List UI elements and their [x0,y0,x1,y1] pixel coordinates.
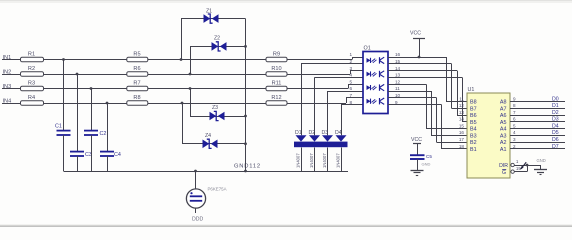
pin A4 U1 [500,127,507,133]
pin 13 U1 [459,110,465,115]
svg-text:R2: R2 [28,66,35,72]
node D4 [552,123,559,129]
node IN2 [3,69,12,75]
node IN1 [3,55,12,61]
capacitor C3 [70,152,92,158]
wire U1 pin 3 to D6 [510,142,565,144]
pin 13 O1 [395,73,401,78]
svg-text:B8: B8 [470,100,477,106]
tvs diode Z4 [203,133,218,148]
pin 7 O1 [349,93,352,98]
wire R11 to opto pin 5 [287,84,363,88]
opto channel 2 [367,71,385,77]
capacitor C1 [55,124,71,136]
svg-text:B2: B2 [470,140,477,146]
diode D4 1N4007 [335,130,347,168]
pin DIR U1 [499,163,508,169]
pin B2 U1 [470,140,477,146]
svg-text:D4: D4 [552,123,559,129]
pin 12 O1 [395,79,401,84]
wire ground rail [64,171,349,173]
resistor R4 [21,95,44,105]
pin B5 U1 [470,120,477,126]
wire opto pin 2 to D1 [301,64,363,136]
pin 11 U1 [459,96,464,101]
svg-text:VCC: VCC [410,31,421,37]
wire C1 to ground rail [63,135,65,171]
svg-text:R5: R5 [133,51,140,57]
pin 4 O1 [349,73,352,78]
pin 1 O1 [349,52,352,57]
svg-text:Z3: Z3 [212,105,218,111]
svg-text:GND: GND [537,158,546,163]
wire D3 to rail [327,148,329,172]
svg-text:C3: C3 [85,152,92,158]
wire U1 pin 7 to D2 [510,115,565,117]
resistor R2 [21,66,44,76]
power VCC C5 [411,137,422,155]
node D1 [552,103,559,109]
svg-text:6: 6 [513,117,516,122]
svg-text:4: 4 [349,73,352,78]
svg-text:D4: D4 [335,130,342,136]
pin B4 U1 [470,127,477,133]
svg-text:Z1: Z1 [206,9,212,15]
wire R3 to R7 [44,88,127,90]
tvs diode Z1 [204,9,219,24]
svg-text:16: 16 [395,52,401,57]
svg-text:18: 18 [459,144,465,149]
pin 16 U1 [459,130,465,135]
no-erc marker [520,162,526,170]
svg-text:15: 15 [459,123,465,128]
svg-text:A1: A1 [500,147,507,153]
pin B8 U1 [470,100,477,106]
wire R4 to R8 [44,103,127,105]
wire U1 pin 2 to D7 [510,148,565,150]
resistor R10 [266,66,287,76]
svg-text:G: G [502,170,506,176]
pin A3 U1 [500,133,507,139]
pin 8 O1 [349,100,352,105]
node IN3 [3,84,12,90]
svg-text:B3: B3 [470,133,477,139]
svg-text:8: 8 [349,100,352,105]
svg-text:D3: D3 [552,117,559,123]
svg-text:D1: D1 [295,130,302,136]
resistor R6 [127,66,148,76]
wire U1 pin 5 to D4 [510,128,565,130]
wire IN4 to R4 [2,103,21,105]
wire C2 to ground rail [91,135,93,171]
wire C3 to ground rail [77,156,79,171]
svg-text:A6: A6 [500,113,507,119]
node D3 [552,117,559,123]
capacitor C4 [100,152,121,158]
svg-text:1N4007: 1N4007 [309,153,314,168]
wire Z3 bridge [189,87,247,117]
svg-text:D7: D7 [552,144,559,150]
svg-text:D5: D5 [552,130,559,136]
pin 5 O1 [349,79,352,84]
svg-text:16: 16 [459,130,465,135]
svg-text:R1: R1 [28,51,35,57]
svg-text:R4: R4 [28,95,35,101]
pin 9 O1 [395,100,398,105]
svg-text:A5: A5 [500,120,507,126]
pin A8 U1 [500,100,507,106]
wire R12 to opto pin 7 [287,98,363,104]
wire R10 to opto pin 3 [287,71,363,75]
node D7 [552,144,559,150]
wire TVS common to rail [244,19,247,173]
wire opto pin 8 to D4 [341,105,363,136]
pin 16 O1 [395,52,401,57]
svg-text:R10: R10 [271,66,281,72]
pin 5 U1 [513,123,516,128]
svg-text:D2: D2 [552,110,559,116]
svg-text:B1: B1 [470,147,477,153]
wire tap to C3 [76,73,79,152]
pin 15 O1 [395,59,401,64]
diode D1 1N4007 [295,130,307,168]
svg-text:D6: D6 [552,137,559,143]
svg-text:2: 2 [349,59,352,64]
svg-text:R7: R7 [133,80,140,86]
svg-text:19: 19 [516,166,521,171]
pin A1 U1 [500,147,507,153]
svg-text:A7: A7 [500,106,507,112]
svg-text:P6KE75A: P6KE75A [208,187,227,192]
svg-text:C5: C5 [426,154,432,159]
wire tap to C2 [90,87,93,131]
node GND112 rail label [234,164,261,170]
wire U1 pin 8 to D1 [510,108,565,110]
pin 2 O1 [349,59,352,64]
resistor R5 [127,51,148,62]
pin 3 U1 [513,137,516,142]
svg-text:8: 8 [513,103,516,108]
capacitor C2 [84,131,106,137]
svg-text:R3: R3 [28,80,35,86]
svg-text:R12: R12 [271,95,281,101]
wire R9 to opto pin 1 [287,57,363,60]
svg-text:A3: A3 [500,133,507,139]
wire opto pin 12 to U1 pin 15 [388,84,467,128]
resistor R12 [266,95,287,105]
svg-text:Z4: Z4 [205,133,211,139]
battery BT1 [186,187,226,214]
svg-text:5: 5 [513,123,516,128]
wire opto pin 4 to D2 [315,77,364,135]
svg-text:Z2: Z2 [214,36,220,42]
node D2 [552,110,559,116]
ground below C5 [411,171,424,176]
wire opto pin 10 to U1 pin 17 [388,98,467,143]
pin 18 U1 [459,144,465,149]
svg-text:14: 14 [459,117,465,122]
wire IN2 to R2 [2,74,21,76]
svg-text:3: 3 [513,137,516,142]
wire opto pin 15 to U1 pin 12 [388,64,467,109]
svg-text:DIR: DIR [499,163,508,169]
svg-text:U1: U1 [468,87,475,93]
pin 2 U1 [513,144,516,149]
pin 14 U1 [459,117,465,122]
svg-text:D2: D2 [309,130,316,136]
pin 7 U1 [513,110,516,115]
node D5 [552,130,559,136]
wire IN3 to R3 [2,88,21,90]
wire opto pin 6 to D3 [328,91,364,135]
pin A5 U1 [500,120,507,126]
svg-text:B5: B5 [470,120,477,126]
wire U1 pin 4 to D5 [510,135,565,137]
wire R5 to R9 [148,59,266,61]
pin 11 O1 [395,86,400,91]
resistor R7 [127,80,148,90]
ground GND right [534,158,547,175]
resistor R8 [127,95,148,105]
opto channel 3 [367,84,385,90]
pin B3 U1 [470,133,477,139]
svg-text:1N4007: 1N4007 [336,153,341,168]
wire R8 to R12 [148,103,266,105]
optocoupler O1 box [363,46,388,114]
wire tap to C1 [62,58,65,131]
wire U1 pin 6 to D3 [510,121,565,123]
svg-text:9: 9 [513,96,516,101]
node D0 [552,96,559,102]
pin 19 G wire [511,164,529,174]
ic U1 box [467,87,510,178]
resistor R9 [266,51,287,62]
wire opto pin 9 to U1 pin 18 [388,105,467,149]
wire D1 to rail [301,148,303,172]
wire U1 pin 9 to D0 [510,101,565,103]
svg-text:GND112: GND112 [234,164,261,170]
pin 15 U1 [459,123,465,128]
pin B1 U1 [470,147,477,153]
pin A6 U1 [500,113,507,119]
pin 14 O1 [395,66,401,71]
pin B7 U1 [470,106,477,112]
wire R1 to R5 [44,59,127,61]
pin 1 DIR wire [511,159,541,167]
wire opto pin 13 to U1 pin 14 [388,77,467,121]
svg-text:12: 12 [395,79,401,84]
svg-text:DDD: DDD [192,217,203,223]
svg-text:13: 13 [395,73,401,78]
pin A2 U1 [500,140,507,146]
opto channel 4 [367,98,385,104]
svg-text:R6: R6 [133,66,140,72]
wire R2 to R6 [44,74,127,76]
wire tap to C4 [106,102,109,152]
node D6 [552,137,559,143]
pin 4 U1 [513,130,516,135]
tvs diode Z2 [212,36,227,52]
pin 6 O1 [349,86,352,91]
svg-text:C1: C1 [55,124,62,130]
svg-text:C4: C4 [114,152,121,158]
pin 10 O1 [395,93,401,98]
svg-text:R9: R9 [273,51,280,57]
pin 17 U1 [459,137,465,142]
pin 3 O1 [349,66,352,71]
svg-text:D3: D3 [322,130,329,136]
wire Z4 bridge [181,102,247,146]
svg-text:A4: A4 [500,127,507,133]
svg-text:1N4007: 1N4007 [296,153,301,168]
pin 8 U1 [513,103,516,108]
svg-text:A8: A8 [500,100,507,106]
svg-text:GND: GND [422,162,431,167]
svg-text:D0: D0 [552,96,559,102]
svg-text:B4: B4 [470,127,477,133]
wire IN1 to R1 [2,59,21,61]
wire R6 to R10 [148,74,266,76]
svg-text:11: 11 [395,86,400,91]
svg-text:3: 3 [349,66,352,71]
svg-text:11: 11 [459,96,464,101]
wire C4 to ground rail [107,156,109,171]
node IN4 [3,98,12,104]
wire Z2 bridge [189,45,247,75]
wire opto pin 16 to U1 pin 11 [388,57,467,102]
svg-text:R11: R11 [272,80,282,86]
wire D4 to rail [341,148,343,172]
node DDD [192,217,203,223]
resistor R11 [266,80,287,90]
svg-text:R8: R8 [133,95,140,101]
opto channel 1 [367,57,385,63]
svg-text:7: 7 [513,110,516,115]
wire opto pin 11 to U1 pin 16 [388,91,467,136]
svg-text:5: 5 [349,79,352,84]
svg-text:D1: D1 [552,103,559,109]
pin 9 U1 [513,96,516,101]
diode D3 1N4007 [322,130,334,168]
diode cathode bar [294,142,348,148]
wire opto pin 14 to U1 pin 13 [388,71,467,116]
svg-text:6: 6 [349,86,352,91]
capacitor C5 [410,154,432,159]
svg-text:4: 4 [513,130,516,135]
resistor R1 [21,51,44,62]
svg-text:VCC: VCC [411,137,422,143]
pin B6 U1 [470,113,477,119]
svg-text:17: 17 [459,137,465,142]
svg-text:A2: A2 [500,140,507,146]
wire D2 to rail [314,148,316,172]
pin G U1 [502,170,506,177]
svg-text:B7: B7 [470,106,477,112]
wire C5 to ground [418,159,431,170]
svg-text:12: 12 [459,103,465,108]
power VCC opto [410,31,425,59]
svg-text:1: 1 [349,52,352,57]
svg-text:C2: C2 [100,131,107,137]
svg-text:1N4007: 1N4007 [322,153,327,168]
svg-text:O1: O1 [364,46,371,52]
resistor R3 [21,80,44,90]
svg-text:7: 7 [349,93,352,98]
wire Z1 bridge [180,19,246,61]
diode D2 1N4007 [309,130,321,168]
tvs diode Z3 [210,105,225,121]
svg-text:B6: B6 [470,113,477,119]
wire rail to battery [194,170,197,189]
pin 12 U1 [459,103,465,108]
pin 6 U1 [513,117,516,122]
pin A7 U1 [500,106,507,112]
svg-text:13: 13 [459,110,465,115]
wire R7 to R11 [148,88,266,90]
